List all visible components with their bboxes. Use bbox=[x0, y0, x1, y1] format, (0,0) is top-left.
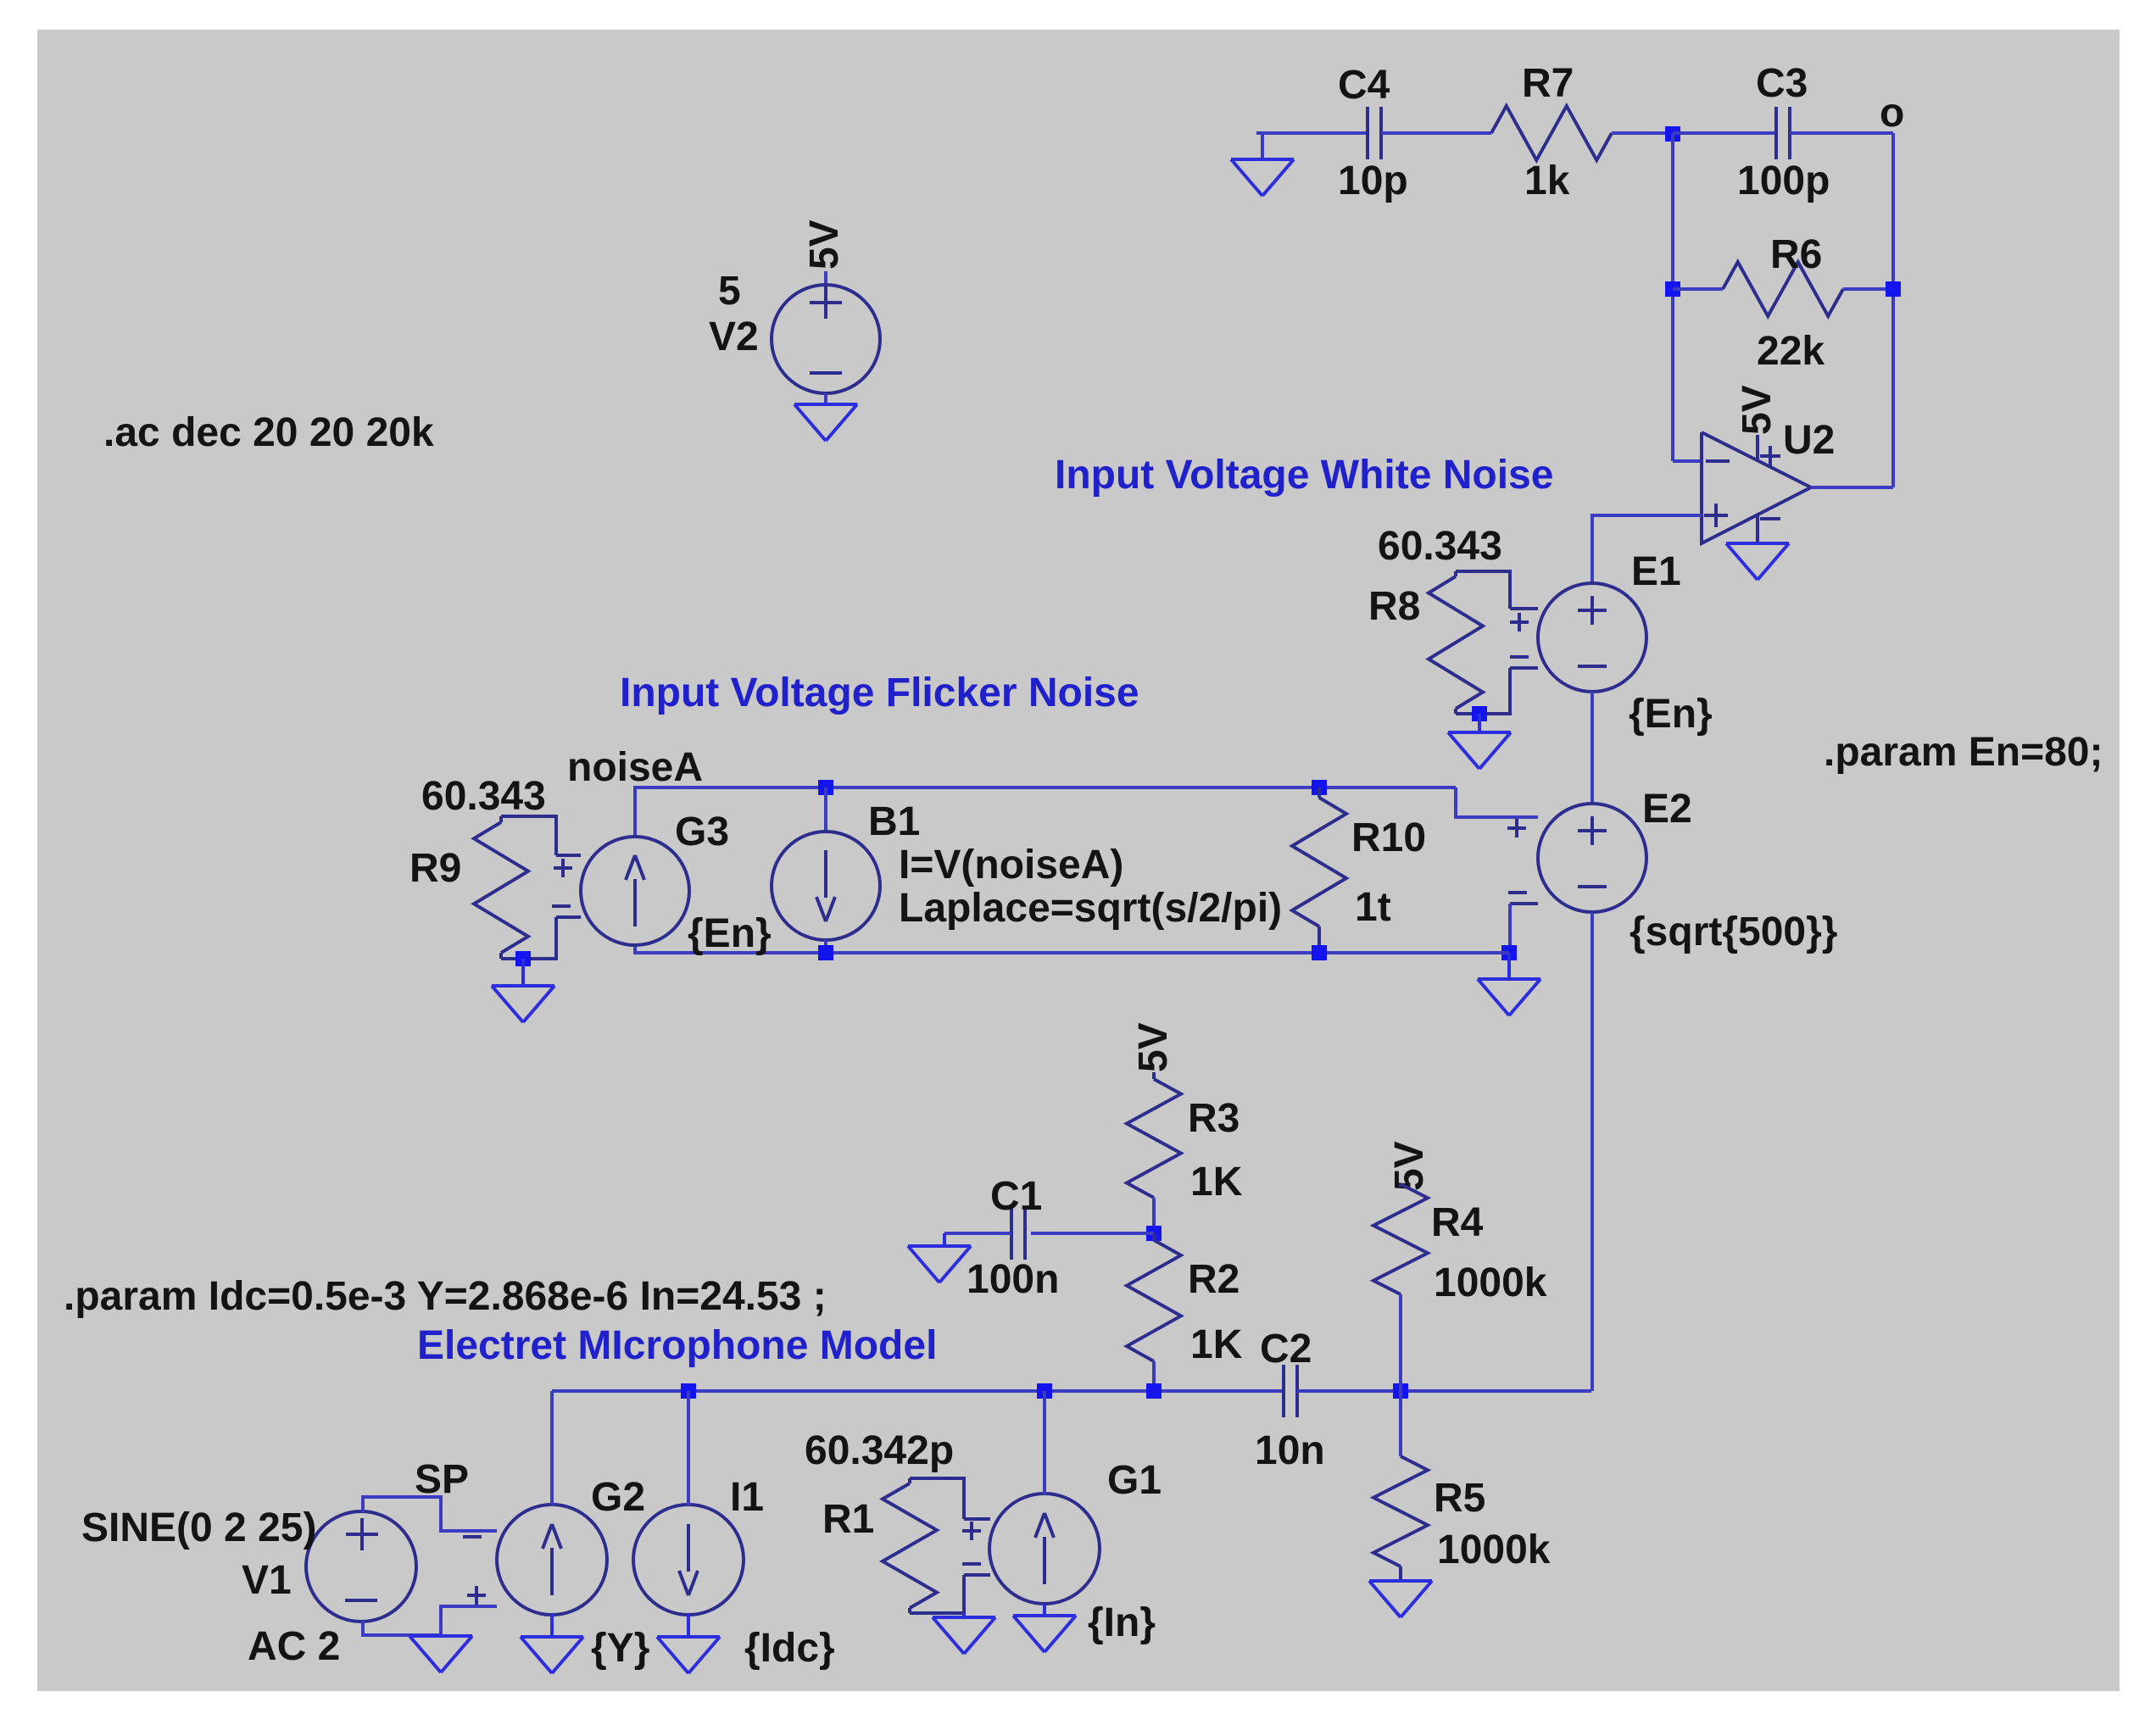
node junction R10 top bbox=[1312, 780, 1327, 795]
ground I1 bbox=[657, 1614, 720, 1673]
svg-text:V2: V2 bbox=[709, 314, 759, 359]
spice directive .ac bbox=[103, 410, 434, 455]
svg-text:Laplace=sqrt(s/2/pi): Laplace=sqrt(s/2/pi) bbox=[899, 886, 1282, 931]
vcvs E1 bbox=[1510, 549, 1713, 737]
svg-text:{En}: {En} bbox=[1629, 692, 1713, 737]
ground G1 bbox=[1013, 1604, 1076, 1652]
wire R6 right lead bbox=[1843, 287, 1893, 291]
svg-text:1000k: 1000k bbox=[1434, 1260, 1547, 1305]
svg-text:1K: 1K bbox=[1190, 1160, 1243, 1205]
resistor R8 bbox=[1368, 524, 1510, 714]
ground R5 bbox=[1369, 1581, 1432, 1617]
wire G2 plus control bbox=[441, 1606, 497, 1635]
svg-text:5V: 5V bbox=[1735, 385, 1780, 435]
svg-text:R9: R9 bbox=[409, 846, 461, 891]
resistor R6 bbox=[1723, 232, 1843, 374]
wire V1 bottom bbox=[363, 1621, 441, 1635]
op-amp U2 bbox=[1702, 418, 1835, 543]
svg-text:G1: G1 bbox=[1107, 1458, 1162, 1503]
svg-text:R2: R2 bbox=[1188, 1257, 1240, 1302]
node junction R10 bottom bbox=[1312, 945, 1327, 960]
svg-text:100n: 100n bbox=[967, 1257, 1059, 1302]
node junction R4 R5 bus bbox=[1393, 1383, 1408, 1399]
vccs G2 bbox=[463, 1475, 649, 1671]
svg-text:10p: 10p bbox=[1338, 159, 1408, 203]
svg-text:R4: R4 bbox=[1431, 1200, 1484, 1245]
resistor R3 bbox=[1127, 1072, 1243, 1233]
wire R4 to bus bbox=[1399, 1294, 1402, 1391]
svg-text:Input Voltage Flicker Noise: Input Voltage Flicker Noise bbox=[620, 670, 1139, 715]
ground R9 bbox=[492, 959, 554, 1022]
net label noiseA bbox=[567, 745, 703, 790]
comment Input Voltage White Noise bbox=[1055, 453, 1553, 498]
vccs G1 bbox=[962, 1458, 1162, 1645]
wire G2 top bbox=[550, 1391, 554, 1505]
capacitor C3 bbox=[1737, 61, 1830, 203]
node junction B1 top bbox=[818, 780, 833, 795]
bv source B1 bbox=[772, 787, 1282, 953]
svg-text:V1: V1 bbox=[242, 1558, 292, 1603]
net label 5V of U2 bbox=[1735, 385, 1780, 435]
wire R6 left lead bbox=[1673, 287, 1723, 291]
ground R1 bbox=[933, 1613, 995, 1654]
svg-text:I1: I1 bbox=[730, 1475, 764, 1520]
ground V2 bbox=[794, 404, 857, 441]
svg-text:R6: R6 bbox=[1770, 232, 1822, 277]
node junction top-left of C3 bbox=[1665, 126, 1680, 142]
comment Electret MIcrophone Model bbox=[417, 1323, 937, 1368]
node junction R9 ground bbox=[515, 951, 531, 966]
svg-text:SINE(0 2 25): SINE(0 2 25) bbox=[81, 1505, 316, 1550]
vcvs E2 bbox=[1507, 787, 1837, 954]
resistor R10 bbox=[1292, 787, 1426, 953]
svg-text:{Y}: {Y} bbox=[591, 1626, 649, 1671]
ground E2 control bbox=[1478, 953, 1540, 1015]
svg-text:R7: R7 bbox=[1522, 61, 1574, 106]
svg-text:1k: 1k bbox=[1524, 159, 1570, 203]
spice directive .param Idc bbox=[64, 1274, 827, 1319]
svg-text:5V: 5V bbox=[1387, 1141, 1432, 1191]
voltage source V2 bbox=[709, 269, 880, 404]
wire E1 to E2 bbox=[1591, 692, 1594, 804]
net label 5V of R4 bbox=[1387, 1141, 1432, 1191]
ground V1 G2 control bbox=[409, 1636, 472, 1672]
svg-text:G2: G2 bbox=[591, 1475, 645, 1520]
svg-text:.param En=80;: .param En=80; bbox=[1824, 730, 2103, 775]
wire U2 output bbox=[1811, 486, 1893, 489]
svg-text:R3: R3 bbox=[1188, 1096, 1240, 1141]
svg-text:10n: 10n bbox=[1255, 1428, 1325, 1473]
svg-text:{En}: {En} bbox=[688, 911, 772, 956]
svg-text:{In}: {In} bbox=[1088, 1600, 1156, 1645]
svg-text:1t: 1t bbox=[1355, 885, 1391, 930]
node junction R8 ground bbox=[1472, 706, 1487, 721]
node o label bbox=[1880, 91, 1904, 136]
current source I1 bbox=[633, 1475, 835, 1671]
wire R7 to node bbox=[1612, 131, 1673, 135]
node junction I1 bus bbox=[681, 1383, 696, 1399]
resistor R2 bbox=[1127, 1233, 1243, 1391]
svg-text:1000k: 1000k bbox=[1437, 1527, 1551, 1572]
node junction G1 bus bbox=[1037, 1383, 1052, 1399]
node junction R2 bus bbox=[1146, 1383, 1162, 1399]
svg-text:U2: U2 bbox=[1783, 418, 1835, 463]
net label 5V of V2 bbox=[802, 220, 847, 270]
wire G1 top bbox=[1043, 1391, 1046, 1494]
wire left vertical feedback bbox=[1671, 134, 1674, 461]
node junction R3 R2 C1 bbox=[1146, 1226, 1162, 1241]
svg-text:60.342p: 60.342p bbox=[805, 1428, 954, 1473]
capacitor C1 bbox=[944, 1174, 1154, 1302]
wire mic bus right bbox=[1297, 1389, 1591, 1393]
wire C3 to corner o bbox=[1790, 131, 1893, 135]
svg-text:{sqrt{500}}: {sqrt{500}} bbox=[1630, 910, 1837, 954]
svg-text:R10: R10 bbox=[1351, 815, 1426, 860]
wire C4 to R7 bbox=[1381, 131, 1491, 135]
svg-text:C1: C1 bbox=[990, 1174, 1042, 1219]
svg-text:I=V(noiseA): I=V(noiseA) bbox=[899, 843, 1123, 887]
wire E2 output down bbox=[1591, 912, 1594, 1391]
wire E2 plus control bbox=[1456, 787, 1538, 817]
svg-text:Electret MIcrophone Model: Electret MIcrophone Model bbox=[417, 1323, 937, 1368]
svg-text:5V: 5V bbox=[802, 220, 847, 270]
svg-text:5: 5 bbox=[718, 269, 741, 314]
svg-text:R5: R5 bbox=[1434, 1476, 1485, 1521]
ground C1 bbox=[908, 1233, 971, 1283]
svg-text:5V: 5V bbox=[1131, 1022, 1176, 1072]
svg-text:R1: R1 bbox=[822, 1497, 874, 1542]
ground top-left bbox=[1231, 133, 1294, 196]
svg-text:.param Idc=0.5e-3 Y=2.868e-6 I: .param Idc=0.5e-3 Y=2.868e-6 In=24.53 ; bbox=[64, 1274, 827, 1319]
wire right vertical bbox=[1891, 133, 1895, 487]
svg-text:E2: E2 bbox=[1642, 787, 1692, 832]
node junction B1 bottom bbox=[818, 945, 833, 960]
ground U2 bbox=[1726, 543, 1789, 580]
wire noninverting input from E1 bbox=[1592, 515, 1702, 583]
svg-text:o: o bbox=[1880, 91, 1904, 136]
wire I1 top bbox=[687, 1391, 690, 1505]
wire mic bus left bbox=[552, 1389, 1284, 1393]
svg-text:{Idc}: {Idc} bbox=[744, 1626, 835, 1671]
svg-text:B1: B1 bbox=[868, 799, 920, 844]
vccs G3 bbox=[552, 810, 772, 956]
wire noiseA top bbox=[635, 787, 1456, 837]
resistor R9 bbox=[409, 774, 556, 959]
svg-text:60.343: 60.343 bbox=[1378, 524, 1502, 569]
net label SP bbox=[415, 1457, 469, 1502]
net label 5V of R3 bbox=[1131, 1022, 1176, 1072]
resistor R7 bbox=[1491, 61, 1612, 203]
svg-text:G3: G3 bbox=[675, 810, 729, 854]
capacitor C4 bbox=[1338, 63, 1408, 203]
comment Input Voltage Flicker Noise bbox=[620, 670, 1139, 715]
resistor R5 bbox=[1373, 1391, 1551, 1581]
wire E2 minus control bbox=[1508, 904, 1512, 953]
svg-text:.ac dec 20 20 20k: .ac dec 20 20 20k bbox=[103, 410, 434, 455]
svg-text:1K: 1K bbox=[1190, 1322, 1243, 1367]
capacitor C2 bbox=[1255, 1327, 1325, 1473]
wire node to C3 bbox=[1673, 131, 1776, 135]
svg-text:60.343: 60.343 bbox=[421, 774, 546, 819]
voltage source V1 bbox=[81, 1505, 416, 1669]
svg-text:E1: E1 bbox=[1631, 549, 1681, 594]
svg-text:noiseA: noiseA bbox=[567, 745, 703, 790]
wire inverting input bbox=[1673, 459, 1702, 463]
resistor R1 bbox=[805, 1428, 964, 1613]
node junction E2 control ground bbox=[1501, 945, 1517, 960]
svg-text:R8: R8 bbox=[1368, 584, 1420, 629]
svg-text:C3: C3 bbox=[1756, 61, 1808, 106]
wire flicker bottom bbox=[635, 945, 1509, 953]
ground G2 bbox=[521, 1614, 583, 1673]
ground R8 bbox=[1448, 714, 1511, 769]
svg-text:AC 2: AC 2 bbox=[248, 1624, 340, 1669]
spice directive .param En bbox=[1824, 730, 2103, 775]
node junction R6 right bbox=[1886, 281, 1901, 297]
resistor R4 bbox=[1373, 1184, 1547, 1305]
wire gnd to C4 bbox=[1262, 131, 1368, 135]
svg-text:Input Voltage White Noise: Input Voltage White Noise bbox=[1055, 453, 1553, 498]
svg-text:100p: 100p bbox=[1737, 159, 1830, 203]
svg-text:C2: C2 bbox=[1260, 1327, 1312, 1372]
node junction R6 left bbox=[1665, 281, 1680, 297]
svg-text:22k: 22k bbox=[1757, 329, 1825, 374]
wire SP bbox=[363, 1497, 497, 1531]
svg-text:C4: C4 bbox=[1338, 63, 1390, 108]
